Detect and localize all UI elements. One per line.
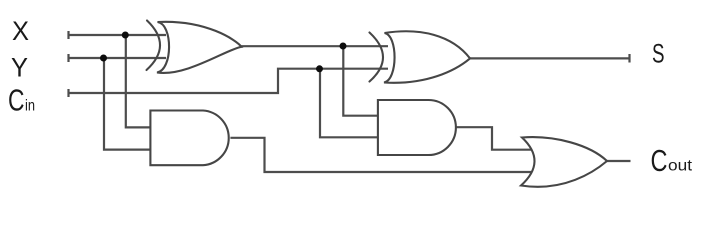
wire AND2 output to OR bbox=[456, 127, 531, 150]
wire Cin branch to AND2 bbox=[320, 69, 379, 138]
svg-text:C: C bbox=[651, 143, 668, 178]
svg-text:S: S bbox=[652, 38, 665, 68]
wire XOR1 output to XOR2 bbox=[242, 45, 389, 47]
label Cout bbox=[651, 143, 693, 178]
xor-gate U1 (X xor Y) bbox=[147, 21, 242, 73]
junction node XOR1out/AND2 bbox=[340, 43, 347, 50]
label Cin bbox=[8, 83, 35, 118]
and-gate U3 (X and Y) bbox=[150, 111, 228, 166]
svg-text:in: in bbox=[25, 98, 35, 115]
wire Y input bbox=[69, 54, 167, 62]
svg-text:C: C bbox=[8, 83, 25, 118]
junction node Cin/AND2 bbox=[316, 65, 323, 72]
svg-text:Y: Y bbox=[11, 53, 28, 83]
and-gate U4 ((X xor Y) and Cin) bbox=[378, 100, 456, 155]
svg-text:out: out bbox=[668, 158, 693, 175]
wire Cin input bbox=[69, 69, 389, 97]
junction node Y/AND1 bbox=[100, 55, 107, 62]
wire X input bbox=[69, 31, 167, 39]
wire Cout output bbox=[607, 160, 631, 162]
junction node X/AND1 bbox=[122, 32, 129, 39]
svg-text:X: X bbox=[12, 16, 29, 46]
wire Y branch to AND1 bbox=[104, 58, 152, 150]
wire X branch to AND1 bbox=[126, 35, 152, 127]
or-gate U5 (carry out) bbox=[521, 137, 607, 187]
wire XOR1 output branch to AND2 bbox=[343, 46, 379, 116]
wire S output bbox=[470, 54, 630, 63]
wire AND1 output to OR bbox=[230, 138, 531, 172]
xor-gate U2 (sum S) bbox=[370, 31, 471, 83]
